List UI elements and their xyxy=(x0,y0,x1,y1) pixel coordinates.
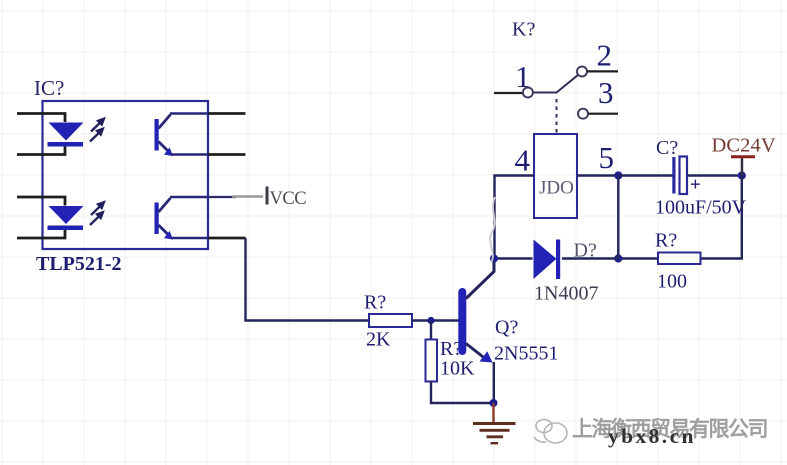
wire emitter node to ground xyxy=(492,403,494,423)
svg-text:R?: R? xyxy=(655,230,677,252)
junction DC24V node xyxy=(738,171,746,179)
wire pin4 to collector node xyxy=(495,176,535,259)
wire R1 to base xyxy=(412,319,459,321)
wire DC24V node down to R3 xyxy=(701,176,742,259)
pin lead ch1 collector (pin 8) xyxy=(208,112,246,115)
pin lead ch2 emitter (pin 5) xyxy=(208,237,246,240)
junction node A top xyxy=(614,171,622,179)
svg-text:5: 5 xyxy=(599,140,615,175)
svg-text:10K: 10K xyxy=(440,358,475,380)
svg-text:3: 3 xyxy=(598,75,614,110)
svg-text:100: 100 xyxy=(657,271,687,293)
svg-text:2: 2 xyxy=(597,38,613,73)
svg-text:C?: C? xyxy=(656,137,678,159)
optocoupler IC1 box xyxy=(43,101,209,249)
relay coil JDO box xyxy=(534,134,577,218)
wire ch2 emitter down and to R1 xyxy=(246,238,370,321)
junction base node xyxy=(427,317,434,324)
pin lead ch1 cathode (pin 2) xyxy=(17,146,65,155)
junction emitter node xyxy=(490,399,498,407)
LED light arrows channel 1 xyxy=(90,119,104,142)
svg-text:JDO: JDO xyxy=(539,178,574,199)
wire base node to R2 xyxy=(430,321,432,340)
phototransistor channel 2 xyxy=(155,197,209,240)
svg-text:2K: 2K xyxy=(366,329,391,351)
svg-text:2N5551: 2N5551 xyxy=(494,343,558,365)
svg-text:K?: K? xyxy=(512,19,535,41)
LED channel 2 xyxy=(48,206,84,230)
VCC power port bar xyxy=(266,187,269,205)
wire pin5 to node A xyxy=(577,174,618,176)
svg-text:DC24V: DC24V xyxy=(712,135,776,157)
transistor Q1 xyxy=(462,259,494,404)
svg-text:4: 4 xyxy=(515,143,531,178)
junction collector node xyxy=(490,254,498,262)
switch K1 throw contact circle 3 xyxy=(578,109,588,119)
resistor R3 100 xyxy=(658,253,701,265)
wire capacitor to DC24V node xyxy=(687,174,742,176)
pin lead ch2 cathode (pin 4) xyxy=(17,230,65,239)
resistor R1 2K xyxy=(369,314,412,327)
stub DC24V bar to node xyxy=(741,158,743,176)
dotted link switch to relay coil xyxy=(556,99,558,134)
svg-text:TLP521-2: TLP521-2 xyxy=(36,253,122,275)
watermark smudge arc near pin4 wire xyxy=(490,197,495,263)
wire node B up to node A xyxy=(617,176,619,259)
capacitor C1 xyxy=(672,157,687,195)
svg-text:100uF/50V: 100uF/50V xyxy=(655,197,747,219)
svg-text:1N4007: 1N4007 xyxy=(534,283,598,305)
svg-text:D?: D? xyxy=(574,240,597,262)
junction node B (diode cathode) xyxy=(614,254,622,262)
switch K1 pin2 lead xyxy=(587,70,618,72)
svg-text:VCC: VCC xyxy=(270,189,307,209)
switch K1 throw contact circle 2 xyxy=(577,67,587,77)
phototransistor channel 1 xyxy=(155,114,209,157)
svg-text:ybx8.cn: ybx8.cn xyxy=(608,424,696,448)
wire diode anode to collector node xyxy=(494,257,533,259)
wire R3 to node B xyxy=(618,257,658,259)
svg-text:Q?: Q? xyxy=(495,317,518,339)
pin lead ch2 anode (pin 3) xyxy=(17,197,65,206)
ground xyxy=(473,424,516,444)
LED light arrows channel 2 xyxy=(90,202,104,225)
svg-text:R?: R? xyxy=(364,292,386,314)
power bar DC24V xyxy=(731,155,755,158)
svg-text:+: + xyxy=(690,175,701,196)
LED channel 1 xyxy=(48,123,84,147)
wire ch2 collector to VCC xyxy=(208,196,236,198)
resistor R2 10K xyxy=(426,340,438,382)
watermark logo xyxy=(534,420,567,444)
diode D1 xyxy=(534,240,561,280)
pin lead ch1 anode (pin 1) xyxy=(17,114,65,123)
switch K1 pin3 lead xyxy=(588,113,618,115)
switch K1 pole contact circle xyxy=(523,88,533,98)
switch K1 pin1 lead xyxy=(494,92,523,94)
wire R2 bottom to emitter node xyxy=(431,382,494,404)
svg-text:IC?: IC? xyxy=(34,76,64,100)
switch K1 arm xyxy=(533,75,578,93)
wire diode cathode to node B xyxy=(562,257,618,259)
wire node A to capacitor xyxy=(618,174,672,176)
pin lead ch1 emitter (pin 7) xyxy=(208,153,246,156)
